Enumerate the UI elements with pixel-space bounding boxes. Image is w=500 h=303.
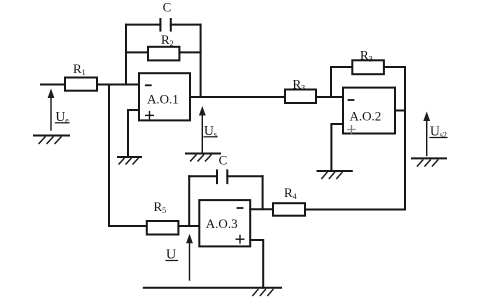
wire A.O.1 noninverting input to ground xyxy=(128,110,139,157)
arrow Us xyxy=(199,106,206,152)
wire input left segment xyxy=(41,84,65,86)
minus sign A.O.3 xyxy=(238,207,243,209)
ground (Us ref) xyxy=(186,154,220,162)
svg-text:U: U xyxy=(166,248,176,263)
wire A.O.2 output stub xyxy=(395,110,405,112)
wire right vertical A.O.2 output to R4 net xyxy=(404,67,406,210)
op-amp U3 A.O.3 box xyxy=(199,200,250,246)
plus sign A.O.2 xyxy=(348,126,356,134)
wire A.O.3 feedback left vertical xyxy=(188,176,190,226)
capacitor C2 wire right xyxy=(227,175,262,177)
wire A.O.3 feedback right vertical xyxy=(262,176,264,209)
capacitor C wire right xyxy=(171,24,201,26)
arrow Ue xyxy=(48,89,55,131)
op-amp U2 A.O.2 box xyxy=(343,88,395,134)
wire R3 to A.O.2 xyxy=(316,96,343,98)
wire feedback left vertical (A.O.1) xyxy=(125,25,127,85)
svg-text:A.O.1: A.O.1 xyxy=(147,92,179,107)
wire A.O.2 feedback left vertical xyxy=(330,67,332,97)
op-amp U1 A.O.1 box xyxy=(139,73,190,120)
capacitor C (A.O.3 feedback) wire left xyxy=(189,175,217,177)
capacitor C2 plates xyxy=(216,170,218,183)
underline U xyxy=(166,260,178,262)
svg-text:A.O.3: A.O.3 xyxy=(206,216,238,231)
capacitor C (A.O.1 feedback) wire left xyxy=(126,24,160,26)
resistor R2 xyxy=(148,47,179,61)
ground (Us2 ref) xyxy=(412,158,446,166)
resistor R3 feedback wire right xyxy=(384,66,405,68)
resistor R2 wire left xyxy=(126,51,148,53)
wire A.O.1 output xyxy=(190,96,285,98)
capacitor C plates xyxy=(159,19,161,31)
wire feedback right vertical (A.O.1) xyxy=(200,25,202,97)
resistor R3 input xyxy=(285,90,316,104)
ground bottom line xyxy=(144,288,281,296)
resistor R3 feedback wire left xyxy=(331,66,352,68)
wire A.O.2 noninverting input to ground xyxy=(331,124,343,171)
arrow Us2 xyxy=(423,112,430,156)
resistor R5 xyxy=(147,221,179,235)
ground (Ue source) xyxy=(34,136,69,144)
resistor R4 xyxy=(273,203,305,216)
resistor R3 feedback xyxy=(352,60,384,74)
wire A.O.3 output xyxy=(250,208,273,210)
wire A.O.3 noninverting output to bottom ground xyxy=(250,240,263,288)
ground (A.O.1 +) xyxy=(118,157,141,164)
underline Us xyxy=(204,136,217,138)
underline Ue xyxy=(56,122,70,124)
resistor R2 wire right xyxy=(179,51,200,53)
wire junction down to R5 branch xyxy=(109,85,147,227)
svg-text:C: C xyxy=(163,0,172,15)
wire R4 to right vertical xyxy=(305,209,405,211)
arrow U xyxy=(186,234,193,280)
wire R5 to A.O.3 xyxy=(178,225,199,227)
svg-text:C: C xyxy=(219,153,228,168)
underline Us2 xyxy=(430,137,447,139)
plus sign A.O.1 xyxy=(146,112,154,120)
wire R1 to A.O.1 inverting input xyxy=(97,84,139,86)
minus sign A.O.1 xyxy=(146,84,151,86)
plus sign A.O.3 xyxy=(236,235,244,243)
minus sign A.O.2 xyxy=(349,99,354,101)
svg-text:A.O.2: A.O.2 xyxy=(350,109,382,124)
ground (A.O.2 +) xyxy=(318,171,352,179)
resistor R1 xyxy=(65,78,97,91)
